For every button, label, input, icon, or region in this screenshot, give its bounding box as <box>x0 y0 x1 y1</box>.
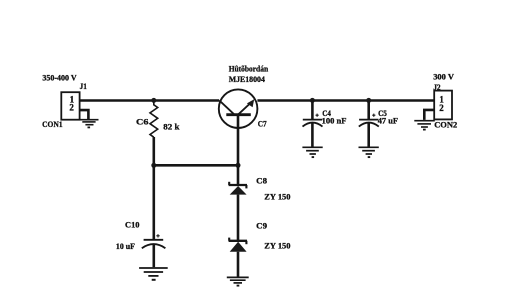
svg-text:C10: C10 <box>125 219 140 229</box>
svg-text:MJE18004: MJE18004 <box>229 74 266 84</box>
wire base to zener C8 <box>237 165 240 184</box>
wire node to C10 <box>153 165 156 239</box>
node resistor top <box>151 98 156 103</box>
wire base vertical <box>237 115 240 166</box>
svg-text:C9: C9 <box>256 220 267 230</box>
svg-text:100 nF: 100 nF <box>322 116 347 126</box>
wire main right (Q emitter to J2 pin1) <box>257 99 434 102</box>
svg-text:C7: C7 <box>258 118 268 128</box>
node C5 top <box>366 98 371 103</box>
svg-text:CON1: CON1 <box>42 119 63 129</box>
svg-text:ZY 150: ZY 150 <box>264 191 290 201</box>
wire J2 pin2 to ground <box>424 110 434 120</box>
svg-text:C8: C8 <box>256 176 267 186</box>
wire C10 bottom <box>153 245 156 268</box>
ground C4 <box>302 147 322 157</box>
svg-text:47 uF: 47 uF <box>378 116 398 126</box>
ground C5 <box>359 147 379 157</box>
plus C5 <box>372 114 375 117</box>
ground C10 <box>139 268 168 280</box>
transistor C7 MJE18004 <box>219 89 258 128</box>
svg-text:J1: J1 <box>80 81 87 91</box>
wire main left (J1 pin1 to Q collector) <box>80 99 219 102</box>
wire C5 bottom <box>367 123 370 146</box>
wire base horizontal <box>154 164 238 167</box>
ground J2 <box>414 121 435 130</box>
wire C8 to C9 <box>237 195 240 240</box>
wire C9 to ground <box>237 252 240 277</box>
svg-text:350-400 V: 350-400 V <box>42 73 77 83</box>
wire C4 top <box>311 100 314 119</box>
zener diode C9 ZY150 <box>229 238 247 252</box>
wire J1 pin2 to ground <box>80 110 89 119</box>
resistor C6 82k <box>150 100 158 137</box>
capacitor C4 100nF <box>303 120 323 127</box>
svg-text:J2: J2 <box>433 82 440 92</box>
svg-text:2: 2 <box>69 103 74 113</box>
svg-text:ZY 150: ZY 150 <box>264 241 290 251</box>
capacitor C10 10uF <box>142 240 166 248</box>
svg-text:2: 2 <box>439 103 444 113</box>
wire resistor bottom to node <box>153 137 156 165</box>
node C4 top <box>310 98 315 103</box>
svg-text:C6: C6 <box>136 116 148 126</box>
node base junction <box>236 163 241 168</box>
ground zeners <box>227 277 249 285</box>
svg-text:82 k: 82 k <box>163 121 179 131</box>
connector J1 <box>61 92 79 120</box>
svg-text:Hûtõbordán: Hûtõbordán <box>229 64 269 74</box>
wire C5 top <box>367 100 370 119</box>
connector J2 <box>434 91 452 120</box>
svg-text:300 V: 300 V <box>433 71 455 81</box>
plus C10 <box>156 234 159 237</box>
wire C4 bottom <box>311 123 314 146</box>
zener diode C8 ZY150 <box>229 182 247 195</box>
ground J1 <box>81 120 99 128</box>
svg-text:CON2: CON2 <box>434 119 457 129</box>
node resistor bottom junction <box>151 163 156 168</box>
capacitor C5 47uF <box>359 120 379 127</box>
plus C4 <box>316 114 319 117</box>
svg-text:10 uF: 10 uF <box>116 241 135 251</box>
